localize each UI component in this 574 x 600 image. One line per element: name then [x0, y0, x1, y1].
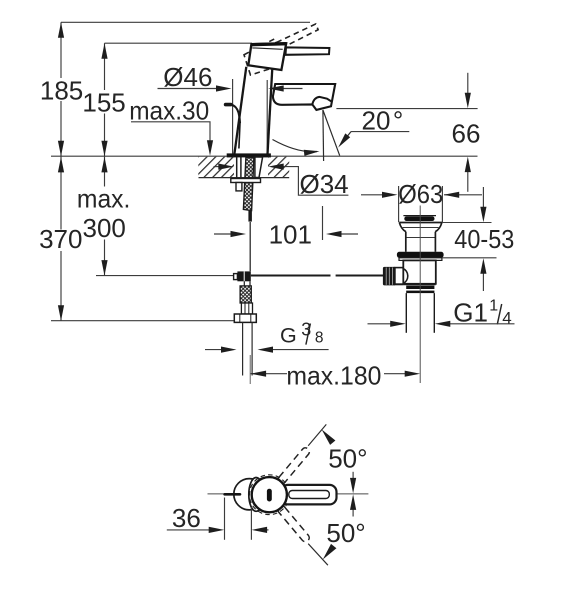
Ø34 arrows in deck: [214, 167, 349, 196]
spout (top view): [234, 479, 265, 510]
dim line 185/370: [60, 22, 62, 78]
second reference line: [105, 42, 253, 44]
plug cap: [403, 215, 436, 217]
Ø63: [361, 186, 482, 222]
svg-text:36: 36: [172, 503, 201, 533]
svg-text:50°: 50°: [328, 444, 367, 474]
svg-text:max.180: max.180: [286, 360, 381, 390]
svg-text:max.30: max.30: [129, 95, 209, 125]
knurled knob: [383, 267, 396, 286]
hook at rear: [226, 105, 240, 149]
lower body: [403, 260, 436, 283]
deck reference line: [51, 155, 478, 157]
lever (top view): [281, 485, 337, 505]
50 deg extension lines: [308, 424, 326, 445]
flex connector stack: [243, 281, 245, 286]
svg-text:20°: 20°: [362, 105, 404, 135]
rim: [399, 222, 442, 224]
svg-text:155: 155: [82, 88, 125, 118]
waste axis: [419, 206, 421, 384]
svg-text:4: 4: [502, 309, 511, 328]
tailpipe: [405, 293, 407, 333]
knob stem: [394, 267, 404, 269]
hole walls: [237, 157, 263, 178]
svg-text:G: G: [280, 323, 297, 347]
dashed handle (raised position): [241, 20, 326, 80]
svg-text:8: 8: [315, 329, 324, 346]
svg-text:G1: G1: [453, 297, 488, 327]
svg-text:Ø34: Ø34: [300, 169, 349, 199]
40-53 dimension: [442, 187, 497, 291]
gasket: [397, 252, 444, 258]
outlet facets: [312, 97, 331, 105]
svg-text:Ø63: Ø63: [398, 179, 443, 209]
101 dimension: [214, 206, 358, 240]
dashed swung levers: [276, 446, 311, 543]
top reference line: [61, 21, 310, 23]
svg-text:101: 101: [269, 219, 312, 249]
spout level line and 66: [336, 108, 477, 110]
socket arc: [403, 268, 408, 283]
handle block: [248, 43, 286, 70]
washer and nut: [231, 179, 261, 183]
spout: [273, 84, 335, 110]
dim line 155/max300: [104, 43, 106, 90]
handle dome: [252, 477, 287, 512]
threaded shank: [243, 157, 254, 210]
body: [234, 67, 272, 154]
base plinth: [227, 153, 271, 157]
svg-text:1: 1: [489, 297, 498, 314]
rod stub: [225, 493, 240, 496]
dashed swing circle: [249, 475, 289, 515]
svg-text:66: 66: [452, 118, 481, 148]
arrowheads of left dims: [58, 22, 64, 38]
370 bottom reference line: [51, 320, 244, 322]
36 dimension: [167, 498, 269, 540]
svg-text:185: 185: [40, 76, 83, 106]
max.180 dimension: [251, 373, 406, 375]
svg-text:50°: 50°: [326, 518, 365, 548]
svg-text:max.: max.: [77, 183, 130, 213]
bottom flange: [403, 283, 435, 285]
bowtie arrows at centerline: [352, 472, 354, 480]
svg-text:370: 370: [39, 224, 82, 254]
lever: [286, 47, 330, 54]
Ø46 right arrow over spout: [281, 88, 303, 90]
svg-text:300: 300: [83, 213, 126, 243]
svg-text:40-53: 40-53: [454, 224, 514, 254]
20 deg spray: [273, 110, 352, 161]
labels: [39, 76, 130, 255]
svg-text:Ø46: Ø46: [163, 62, 212, 92]
max300 bottom reference line: [96, 275, 238, 277]
